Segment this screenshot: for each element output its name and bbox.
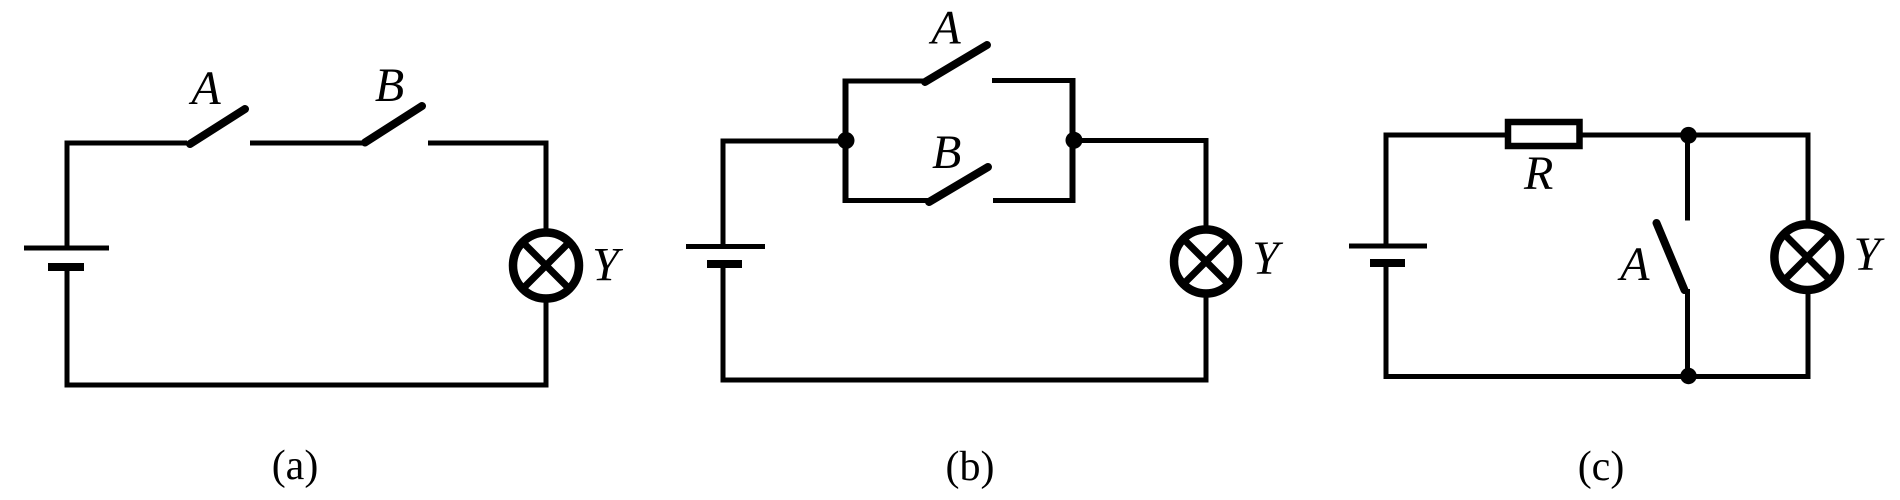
svg-text:A: A bbox=[1617, 238, 1650, 291]
wire c resistor to node bbox=[1582, 133, 1688, 138]
switch A blade (c) bbox=[1657, 223, 1685, 290]
wire c node to lamp corner bbox=[1688, 135, 1808, 221]
wire b bottom branch left bbox=[843, 198, 930, 203]
resistor R body bbox=[1508, 122, 1580, 146]
wire c switch to bottom node bbox=[1685, 289, 1690, 376]
lamp Y (c) circle bbox=[1774, 224, 1840, 290]
svg-text:Y: Y bbox=[592, 239, 623, 292]
switch B blade (b) bbox=[929, 167, 988, 202]
wire c lamp to bottom bbox=[1806, 294, 1811, 376]
battery c long plate bbox=[1349, 244, 1427, 249]
wire a lamp to bottom bbox=[544, 300, 549, 385]
svg-text:Y: Y bbox=[1252, 232, 1283, 285]
wire c bottom bbox=[1384, 374, 1811, 379]
wire b top branch left bbox=[843, 79, 926, 84]
wire a bottom bbox=[65, 383, 549, 388]
lamp Y (a) circle bbox=[513, 233, 579, 299]
wire b right node to lamp bbox=[1074, 141, 1206, 228]
lamp Y (b) cross bbox=[1186, 241, 1227, 282]
switch B blade bbox=[365, 106, 422, 143]
svg-text:R: R bbox=[1523, 147, 1553, 200]
wire b bottom branch right bbox=[993, 198, 1076, 203]
wire a top to switch A bbox=[65, 141, 188, 146]
wire b battery bottom lead bbox=[721, 264, 726, 383]
node b right junction dot bbox=[1066, 132, 1083, 149]
wire a battery bottom lead bbox=[65, 267, 70, 388]
wire c battery top lead bbox=[1384, 135, 1389, 244]
wire b bottom bbox=[721, 378, 1209, 383]
svg-text:B: B bbox=[932, 126, 961, 179]
lamp Y (a) cross bbox=[525, 245, 567, 287]
svg-text:(c): (c) bbox=[1578, 444, 1625, 490]
svg-text:(b): (b) bbox=[946, 444, 995, 490]
wire b top branch right bbox=[992, 78, 1076, 83]
battery a long plate bbox=[24, 246, 109, 251]
battery a short plate bbox=[48, 263, 84, 271]
wire b battery to left node bbox=[721, 139, 847, 144]
wire b right branch vertical bbox=[1070, 78, 1076, 203]
wire a battery top lead bbox=[65, 143, 70, 246]
wire b battery top lead bbox=[721, 141, 726, 244]
switch A blade (b) bbox=[925, 45, 987, 82]
node b left junction dot bbox=[838, 132, 855, 149]
wire a switch B to top-right corner and down bbox=[428, 143, 546, 231]
battery b short plate bbox=[707, 260, 742, 268]
svg-text:A: A bbox=[188, 62, 221, 115]
wire c node down to switch bbox=[1685, 135, 1690, 221]
wire c top to resistor bbox=[1384, 133, 1507, 138]
svg-text:A: A bbox=[928, 2, 961, 55]
wire b lamp to bottom bbox=[1204, 296, 1209, 380]
lamp Y (b) circle bbox=[1174, 230, 1238, 294]
wire c battery bottom lead bbox=[1384, 263, 1389, 379]
svg-text:B: B bbox=[375, 59, 404, 112]
wire b left branch vertical bbox=[843, 79, 849, 204]
lamp Y (c) cross bbox=[1786, 236, 1828, 278]
svg-text:(a): (a) bbox=[272, 443, 319, 489]
battery c short plate bbox=[1370, 259, 1405, 267]
node c bottom junction dot bbox=[1680, 368, 1696, 384]
wire a between switches bbox=[250, 141, 364, 146]
switch A blade bbox=[190, 109, 245, 144]
node c top junction dot bbox=[1680, 127, 1697, 144]
battery b long plate bbox=[686, 244, 765, 249]
svg-text:Y: Y bbox=[1854, 228, 1885, 281]
